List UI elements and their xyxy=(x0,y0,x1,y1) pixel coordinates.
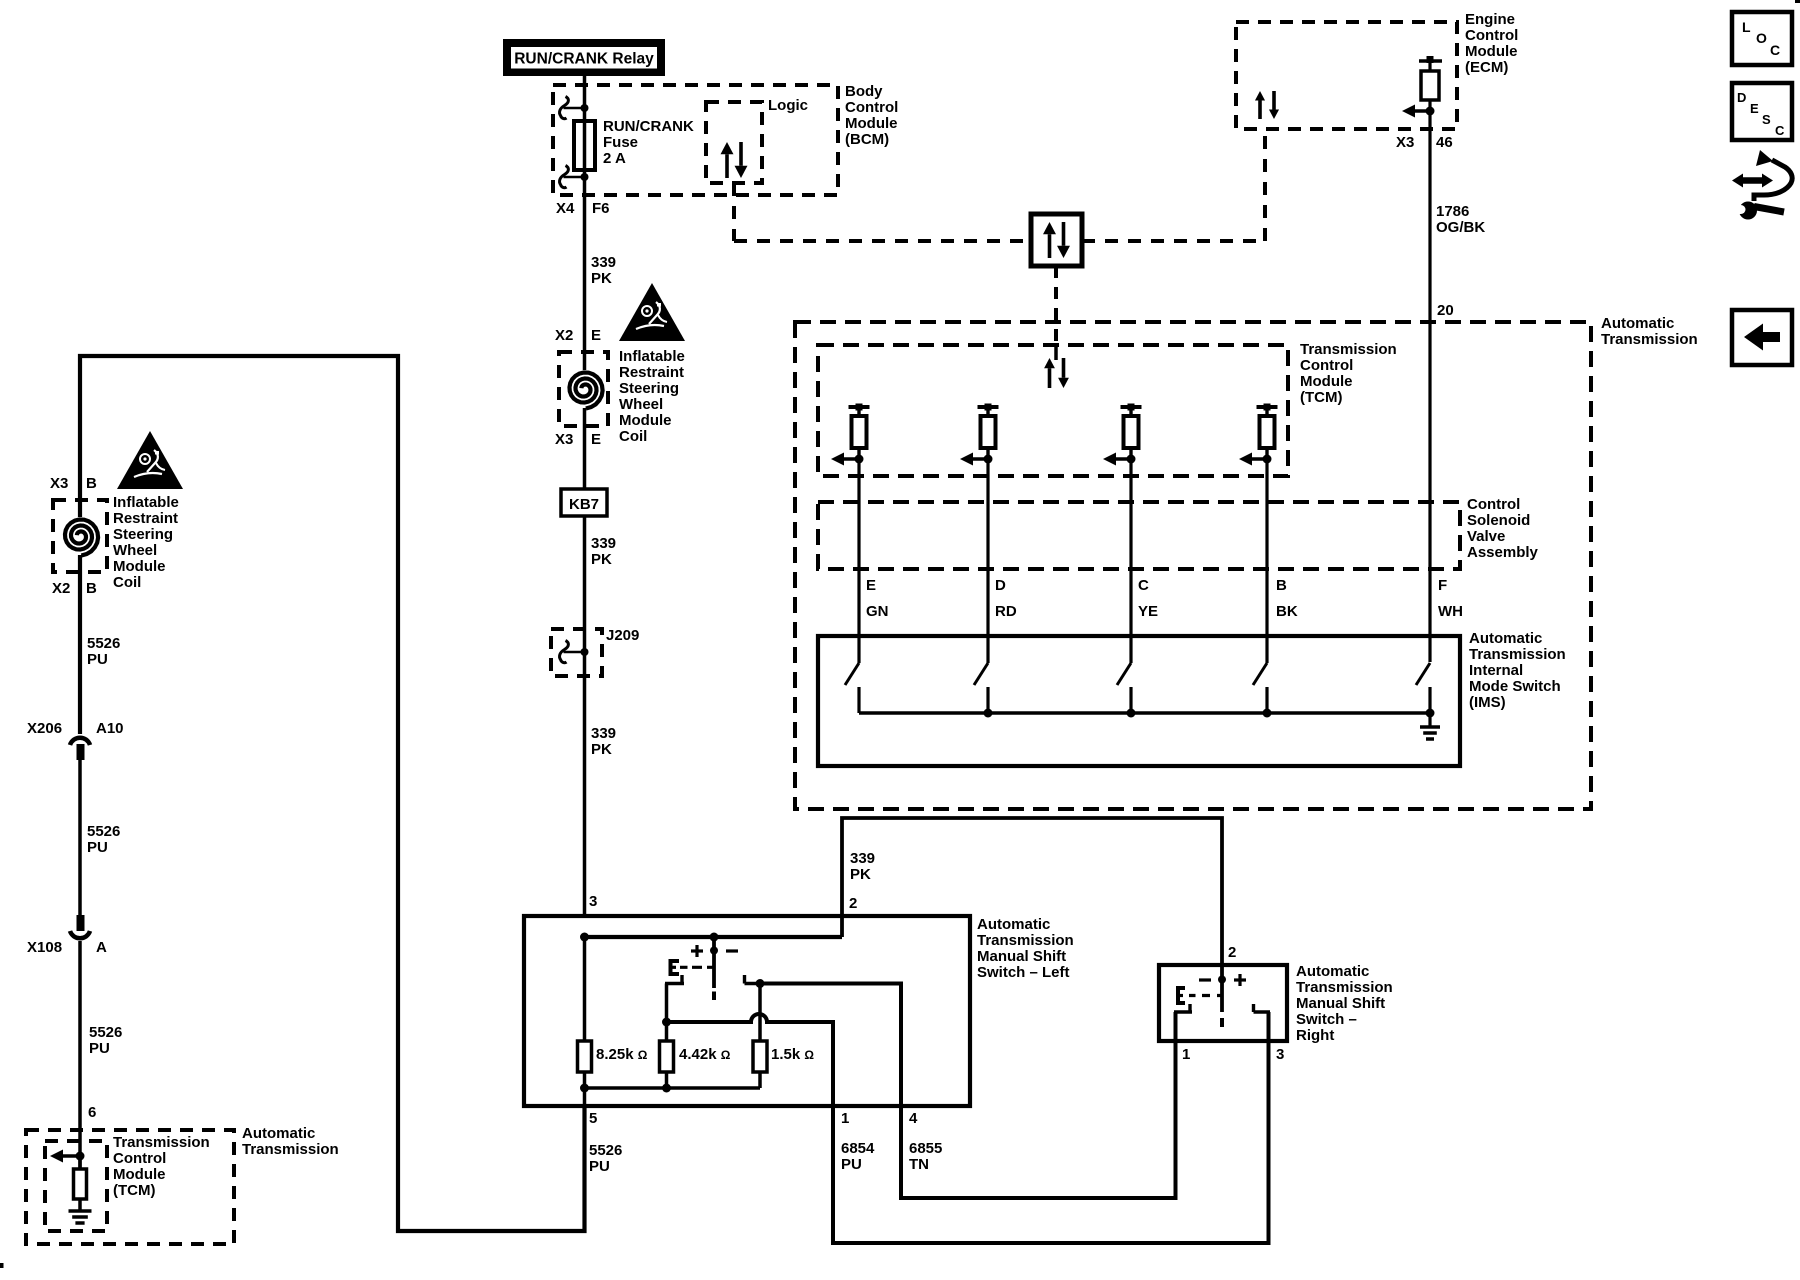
svg-text:46: 46 xyxy=(1436,134,1453,151)
svg-text:X108: X108 xyxy=(27,939,62,956)
svg-text:Logic: Logic xyxy=(768,97,808,114)
svg-text:Valve: Valve xyxy=(1467,528,1505,545)
svg-text:Module: Module xyxy=(1300,373,1353,390)
svg-text:E: E xyxy=(591,327,601,344)
svg-text:PK: PK xyxy=(591,551,612,568)
svg-text:6: 6 xyxy=(88,1104,96,1121)
svg-text:D: D xyxy=(995,577,1006,594)
svg-text:X206: X206 xyxy=(27,720,62,737)
svg-text:Automatic: Automatic xyxy=(242,1125,315,1142)
svg-text:X3: X3 xyxy=(555,431,573,448)
svg-text:YE: YE xyxy=(1138,603,1158,620)
svg-text:F: F xyxy=(1438,577,1447,594)
svg-text:E: E xyxy=(866,577,876,594)
svg-text:L: L xyxy=(1742,19,1751,35)
svg-text:Transmission: Transmission xyxy=(113,1134,210,1151)
svg-text:WH: WH xyxy=(1438,603,1463,620)
svg-text:8.25k Ω: 8.25k Ω xyxy=(596,1046,648,1063)
svg-text:Right: Right xyxy=(1296,1027,1334,1044)
svg-text:Transmission: Transmission xyxy=(1296,979,1393,996)
svg-text:X3: X3 xyxy=(1396,134,1414,151)
svg-text:20: 20 xyxy=(1437,302,1454,319)
svg-text:(TCM): (TCM) xyxy=(1300,389,1342,406)
svg-text:1786: 1786 xyxy=(1436,203,1469,220)
svg-text:Automatic: Automatic xyxy=(1601,315,1674,332)
svg-text:PU: PU xyxy=(87,651,108,668)
svg-text:Mode Switch: Mode Switch xyxy=(1469,678,1561,695)
svg-text:S: S xyxy=(1762,112,1771,127)
svg-text:Control: Control xyxy=(1467,496,1520,513)
svg-text:X2: X2 xyxy=(52,580,70,597)
svg-text:Inflatable: Inflatable xyxy=(113,494,179,511)
svg-text:PU: PU xyxy=(589,1158,610,1175)
svg-text:Restraint: Restraint xyxy=(619,364,684,381)
svg-text:D: D xyxy=(1737,90,1746,105)
svg-text:Assembly: Assembly xyxy=(1467,544,1539,561)
svg-text:339: 339 xyxy=(850,850,875,867)
svg-text:PK: PK xyxy=(591,741,612,758)
svg-text:Restraint: Restraint xyxy=(113,510,178,527)
svg-text:5526: 5526 xyxy=(89,1024,122,1041)
svg-text:(TCM): (TCM) xyxy=(113,1182,155,1199)
svg-text:PU: PU xyxy=(87,839,108,856)
svg-text:Module: Module xyxy=(1465,43,1518,60)
svg-text:J209: J209 xyxy=(606,627,639,644)
svg-text:C: C xyxy=(1775,123,1785,138)
svg-text:X2: X2 xyxy=(555,327,573,344)
svg-text:Manual Shift: Manual Shift xyxy=(977,948,1066,965)
svg-text:Module: Module xyxy=(845,115,898,132)
svg-text:Manual Shift: Manual Shift xyxy=(1296,995,1385,1012)
svg-text:2: 2 xyxy=(849,895,857,912)
svg-text:B: B xyxy=(1276,577,1287,594)
svg-text:339: 339 xyxy=(591,725,616,742)
svg-text:Coil: Coil xyxy=(113,574,141,591)
svg-text:5526: 5526 xyxy=(87,823,120,840)
svg-text:1: 1 xyxy=(1182,1046,1190,1063)
svg-text:Internal: Internal xyxy=(1469,662,1523,679)
svg-text:O: O xyxy=(1756,30,1767,46)
svg-text:Control: Control xyxy=(845,99,898,116)
svg-text:X3: X3 xyxy=(50,475,68,492)
svg-text:KB7: KB7 xyxy=(569,496,599,513)
svg-text:Solenoid: Solenoid xyxy=(1467,512,1530,529)
svg-text:Automatic: Automatic xyxy=(1296,963,1369,980)
svg-text:Coil: Coil xyxy=(619,428,647,445)
svg-text:Transmission: Transmission xyxy=(977,932,1074,949)
svg-text:PK: PK xyxy=(850,866,871,883)
svg-text:4.42k Ω: 4.42k Ω xyxy=(679,1046,731,1063)
svg-text:PK: PK xyxy=(591,270,612,287)
svg-text:Transmission: Transmission xyxy=(1601,331,1698,348)
svg-text:F6: F6 xyxy=(592,200,610,217)
svg-text:Switch –: Switch – xyxy=(1296,1011,1357,1028)
svg-text:X4: X4 xyxy=(556,200,575,217)
svg-text:Engine: Engine xyxy=(1465,11,1515,28)
svg-text:5526: 5526 xyxy=(589,1142,622,1159)
svg-text:Transmission: Transmission xyxy=(1469,646,1566,663)
svg-text:Control: Control xyxy=(1300,357,1353,374)
svg-text:BK: BK xyxy=(1276,603,1298,620)
svg-text:6854: 6854 xyxy=(841,1140,875,1157)
svg-text:B: B xyxy=(86,580,97,597)
svg-text:4: 4 xyxy=(909,1110,918,1127)
svg-text:3: 3 xyxy=(1276,1046,1284,1063)
svg-text:OG/BK: OG/BK xyxy=(1436,219,1485,236)
svg-text:RUN/CRANK Relay: RUN/CRANK Relay xyxy=(514,51,654,68)
svg-text:Wheel: Wheel xyxy=(619,396,663,413)
svg-text:PU: PU xyxy=(841,1156,862,1173)
svg-text:Fuse: Fuse xyxy=(603,134,638,151)
svg-text:C: C xyxy=(1770,42,1780,58)
svg-text:Automatic: Automatic xyxy=(1469,630,1542,647)
svg-text:E: E xyxy=(591,431,601,448)
svg-text:TN: TN xyxy=(909,1156,929,1173)
svg-text:Module: Module xyxy=(113,558,166,575)
svg-text:2: 2 xyxy=(1228,944,1236,961)
svg-text:3: 3 xyxy=(589,893,597,910)
svg-text:(ECM): (ECM) xyxy=(1465,59,1508,76)
svg-text:Inflatable: Inflatable xyxy=(619,348,685,365)
svg-text:Transmission: Transmission xyxy=(1300,341,1397,358)
svg-text:(BCM): (BCM) xyxy=(845,131,889,148)
svg-text:339: 339 xyxy=(591,254,616,271)
svg-text:RD: RD xyxy=(995,603,1017,620)
svg-text:1.5k Ω: 1.5k Ω xyxy=(771,1046,814,1063)
svg-text:E: E xyxy=(1750,101,1759,116)
svg-text:A: A xyxy=(96,939,107,956)
svg-text:Switch – Left: Switch – Left xyxy=(977,964,1070,981)
svg-text:Control: Control xyxy=(1465,27,1518,44)
svg-text:5526: 5526 xyxy=(87,635,120,652)
svg-text:Transmission: Transmission xyxy=(242,1141,339,1158)
svg-text:(IMS): (IMS) xyxy=(1469,694,1506,711)
svg-text:GN: GN xyxy=(866,603,889,620)
svg-text:Body: Body xyxy=(845,83,883,100)
svg-text:339: 339 xyxy=(591,535,616,552)
svg-text:PU: PU xyxy=(89,1040,110,1057)
svg-text:Wheel: Wheel xyxy=(113,542,157,559)
svg-text:A10: A10 xyxy=(96,720,124,737)
svg-text:Control: Control xyxy=(113,1150,166,1167)
svg-text:1: 1 xyxy=(841,1110,849,1127)
svg-text:Steering: Steering xyxy=(619,380,679,397)
svg-text:6855: 6855 xyxy=(909,1140,942,1157)
svg-text:B: B xyxy=(86,475,97,492)
svg-text:5: 5 xyxy=(589,1110,597,1127)
svg-text:Module: Module xyxy=(113,1166,166,1183)
svg-text:C: C xyxy=(1138,577,1149,594)
svg-text:Steering: Steering xyxy=(113,526,173,543)
svg-text:Module: Module xyxy=(619,412,672,429)
svg-text:2 A: 2 A xyxy=(603,150,626,167)
svg-text:RUN/CRANK: RUN/CRANK xyxy=(603,118,694,135)
svg-text:Automatic: Automatic xyxy=(977,916,1050,933)
